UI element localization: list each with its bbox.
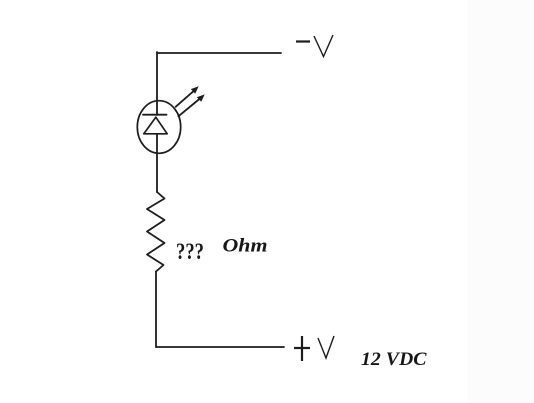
wire: top vertical into LED [156,52,158,115]
wire: bottom horizontal (+V rail) [156,346,284,348]
svg-text:12 VDC: 12 VDC [361,349,427,370]
LED D1: anode triangle [144,117,167,134]
label: +V supply [294,336,334,361]
wire: top horizontal (-V rail) [157,52,281,54]
LED D1: envelope circle [137,101,180,154]
svg-text:???: ??? [176,239,204,265]
LED D1: light arrow 1 [176,86,199,107]
wire: LED to resistor [156,134,158,192]
svg-text:Ohm: Ohm [223,237,268,257]
LED D1: light arrow 2 [178,94,204,116]
wire: resistor to bottom corner [155,272,157,348]
resistor R (??? Ohm) zigzag [147,192,165,272]
LED D1: cathode bar [143,114,167,116]
label: -V supply [296,35,333,57]
